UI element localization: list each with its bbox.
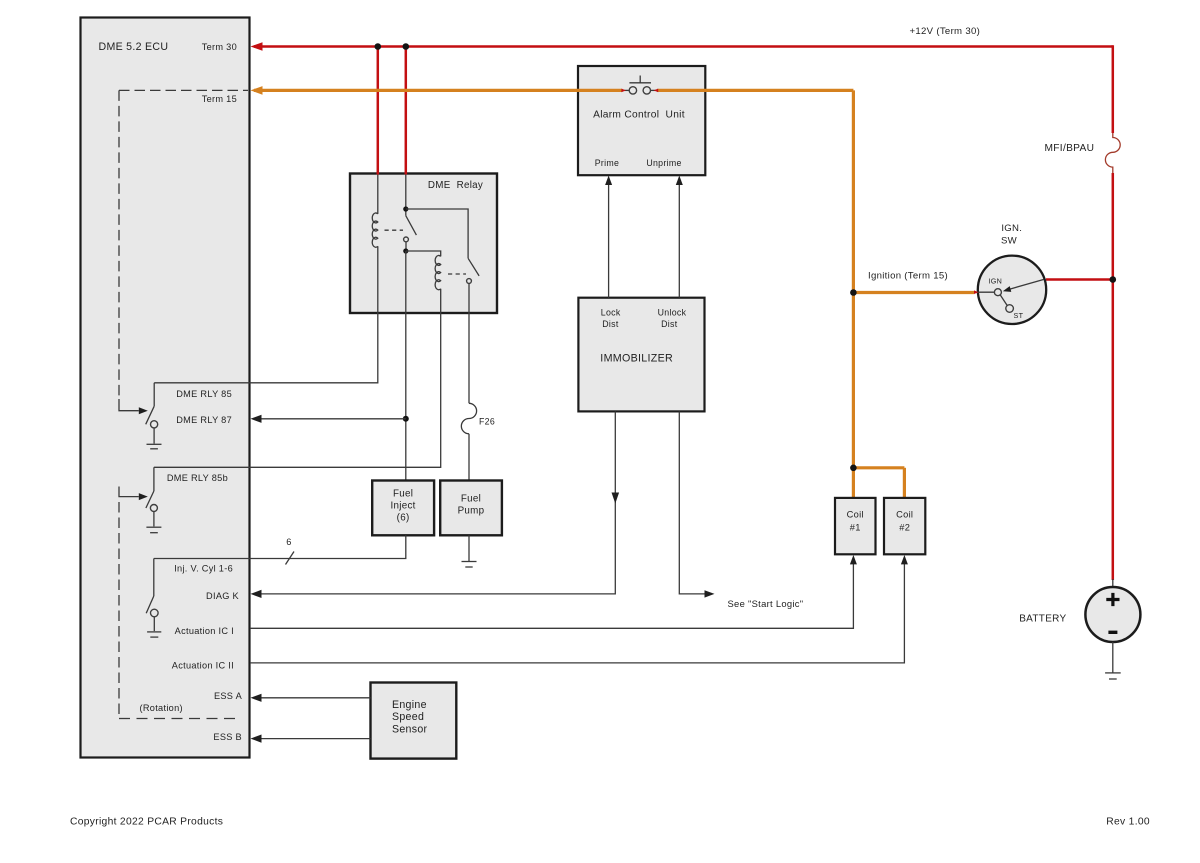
control arrow to switch S1 <box>119 399 148 414</box>
relay switch SW2 blade <box>468 258 479 276</box>
fuel pump box <box>440 481 502 536</box>
wire Term 15 bus (orange) <box>254 89 622 92</box>
contact circle ST <box>1006 305 1014 313</box>
svg-text:+12V (Term 30): +12V (Term 30) <box>910 26 981 37</box>
junction dot relay node 87 <box>403 248 408 253</box>
wire unlock dist to start logic <box>679 411 704 594</box>
wire +12V Term 30 bus (red) <box>254 45 1113 48</box>
dashed actuation link coil L2 to SW2 <box>448 273 466 275</box>
ignition coil 2 box <box>884 498 925 554</box>
svg-text:ESS B: ESS B <box>213 732 242 742</box>
svg-text:DME RLY 85b: DME RLY 85b <box>167 473 228 483</box>
switch S2 DME RLY 85b driver <box>146 467 158 511</box>
svg-text:IGN: IGN <box>988 277 1002 286</box>
junction dot DME RLY 87 tap <box>403 416 409 422</box>
wire SW2 contact down to fuse F26 <box>468 283 470 403</box>
svg-text:Coil: Coil <box>847 510 864 520</box>
svg-text:DME 5.2 ECU: DME 5.2 ECU <box>99 41 169 53</box>
ground below battery <box>1105 642 1121 679</box>
dashed actuation link coil L1 to SW1 <box>385 229 404 231</box>
junction dot orange at coil feed <box>850 465 857 472</box>
ground for S1 <box>147 428 162 449</box>
wire orange after alarm switch <box>657 89 853 92</box>
svg-text:Rev 1.00: Rev 1.00 <box>1106 817 1150 828</box>
wire red right vertical above fuse <box>1112 45 1115 133</box>
relay coil L2 <box>435 255 441 289</box>
wire orange feed coil 2 <box>903 468 906 497</box>
wire red to ignition switch <box>1046 278 1113 281</box>
wire DME RLY 87 into ECU <box>254 418 406 420</box>
contact circle IGN <box>994 289 1001 296</box>
arrowhead DIAG K into ECU <box>251 590 262 598</box>
svg-text:Fuel: Fuel <box>461 494 481 505</box>
red tick at ignition switch orange feed <box>974 290 979 294</box>
svg-text:Lock: Lock <box>601 308 621 318</box>
relay switch SW1 pivot lead <box>405 175 407 216</box>
svg-text:DME Relay: DME Relay <box>428 180 483 191</box>
svg-text:DME RLY 85: DME RLY 85 <box>176 389 232 399</box>
wire coil L2 bottom to DME RLY 85b <box>154 289 441 468</box>
ignition coil 1 box <box>835 498 876 554</box>
svg-text:Speed: Speed <box>392 711 424 723</box>
svg-text:Alarm Control Unit: Alarm Control Unit <box>593 110 685 121</box>
wire SW1 contact to node 87 <box>405 242 407 251</box>
wire orange vertical drop to coils <box>852 90 855 467</box>
arrowhead Term 30 into ECU <box>251 42 263 51</box>
wire ESS A <box>251 694 371 702</box>
svg-text:Engine: Engine <box>392 699 427 711</box>
wire node 87 down to fuel injectors <box>405 251 407 480</box>
arrowhead see start logic <box>705 590 715 597</box>
svg-text:Copyright 2022 PCAR Products: Copyright 2022 PCAR Products <box>70 817 223 828</box>
arrowhead Term 15 into ECU <box>251 86 263 95</box>
wire red drop to relay coil L1 <box>377 47 380 175</box>
svg-text:F26: F26 <box>479 417 495 427</box>
wire injector return with gauge slash <box>154 535 406 558</box>
svg-text:Pump: Pump <box>458 506 485 517</box>
svg-text:DIAG K: DIAG K <box>206 591 240 601</box>
relay switch SW1 contact <box>404 237 409 242</box>
ignition switch IGN. SW <box>978 223 1046 324</box>
svg-text:(Rotation): (Rotation) <box>140 703 183 713</box>
relay switch SW1 blade <box>406 216 417 235</box>
svg-text:ESS A: ESS A <box>214 691 243 701</box>
ground for S2 <box>146 512 161 533</box>
svg-text:Actuation IC I: Actuation IC I <box>175 626 234 636</box>
battery symbol <box>1085 579 1140 642</box>
relay switch SW2 contact <box>467 279 472 284</box>
junction dot red feed to relay coil <box>375 43 382 50</box>
svg-text:MFI/BPAU: MFI/BPAU <box>1045 143 1095 154</box>
wire Actuation IC I to coil 1 <box>250 555 857 628</box>
svg-text:Fuel: Fuel <box>393 489 413 500</box>
wire node 87 to coil L2 top <box>406 251 441 256</box>
svg-text:Sensor: Sensor <box>392 723 428 735</box>
wire orange feed coil 1 <box>852 468 855 497</box>
svg-text:Term 15: Term 15 <box>202 94 237 104</box>
engine speed sensor box <box>371 683 457 759</box>
svg-text:Prime: Prime <box>595 158 619 168</box>
arrowhead lock dist direction <box>612 493 620 504</box>
svg-text:Dist: Dist <box>602 319 619 329</box>
fuse MFI/BPAU <box>1105 133 1120 173</box>
svg-text:#2: #2 <box>899 523 910 533</box>
wire Actuation IC II to coil 2 <box>250 555 908 663</box>
wire relay pin 86 lead <box>377 175 379 214</box>
svg-text:BATTERY: BATTERY <box>1019 614 1066 625</box>
svg-text:See "Start Logic": See "Start Logic" <box>728 598 804 609</box>
wire fuse F26 to fuel pump <box>468 434 470 481</box>
svg-text:Inj. V. Cyl 1-6: Inj. V. Cyl 1-6 <box>174 564 233 574</box>
wire link IGN to ST contact <box>1000 295 1007 306</box>
wire orange ignition branch <box>853 291 974 294</box>
wire ESS B <box>251 735 371 743</box>
junction dot orange at ignition branch <box>850 289 857 296</box>
switch S3 injector driver <box>146 559 158 617</box>
switch S1 DME RLY 85 driver <box>146 383 158 428</box>
svg-text:Term 30: Term 30 <box>202 42 237 52</box>
svg-text:IMMOBILIZER: IMMOBILIZER <box>600 353 673 365</box>
wire orange branch to coil 2 <box>853 466 904 469</box>
svg-text:#1: #1 <box>850 523 861 533</box>
wire lock dist to DIAG K <box>254 411 615 594</box>
dashed ignition-switched region inside ECU <box>119 90 248 718</box>
alarm disarm pushbutton <box>621 76 658 95</box>
svg-text:ST: ST <box>1014 311 1024 320</box>
svg-text:6: 6 <box>286 537 291 547</box>
junction dot relay node 30a <box>403 206 408 211</box>
control arrow to switch S2 <box>119 487 148 501</box>
ground below fuel pump <box>462 535 477 567</box>
fuel injectors box Fuel Inject (6) <box>372 481 434 536</box>
svg-text:Ignition (Term 15): Ignition (Term 15) <box>868 271 948 282</box>
wire node 30a to SW2 pivot <box>406 209 468 258</box>
ECU U1 box DME 5.2 ECU <box>81 18 250 758</box>
relay coil L1 <box>372 213 378 247</box>
svg-text:Actuation IC II: Actuation IC II <box>172 661 234 671</box>
wire prime to alarm unit <box>605 176 612 298</box>
svg-text:Unprime: Unprime <box>646 158 681 168</box>
wire ignition input to IGN contact <box>975 291 995 293</box>
wire red drop to relay contact 30 <box>405 47 408 175</box>
wire red right vertical below fuse to battery <box>1112 173 1115 580</box>
slash 6-conductor mark <box>286 552 295 565</box>
junction dot red feed to relay contacts <box>403 43 410 50</box>
svg-text:DME RLY 87: DME RLY 87 <box>176 415 232 425</box>
arrowhead DME RLY 87 <box>251 415 262 423</box>
junction dot red at ignition switch feed <box>1110 276 1117 283</box>
svg-text:Coil: Coil <box>896 510 913 520</box>
wire unprime to alarm unit <box>676 176 683 298</box>
ground for S3 <box>147 617 161 637</box>
relay K1 box DME Relay <box>350 174 497 314</box>
rotor arm arrow from battery feed <box>1003 280 1044 292</box>
svg-text:(6): (6) <box>397 513 410 524</box>
wire coil L1 bottom to DME RLY 85 <box>154 246 378 382</box>
fuse F26 <box>461 403 476 434</box>
svg-text:IGN.: IGN. <box>1001 223 1022 234</box>
svg-text:Inject: Inject <box>390 501 415 512</box>
immobilizer box <box>578 298 704 412</box>
svg-text:Unlock: Unlock <box>658 308 687 318</box>
svg-text:Dist: Dist <box>661 319 678 329</box>
alarm control unit box <box>578 66 705 175</box>
svg-text:SW: SW <box>1001 236 1018 247</box>
